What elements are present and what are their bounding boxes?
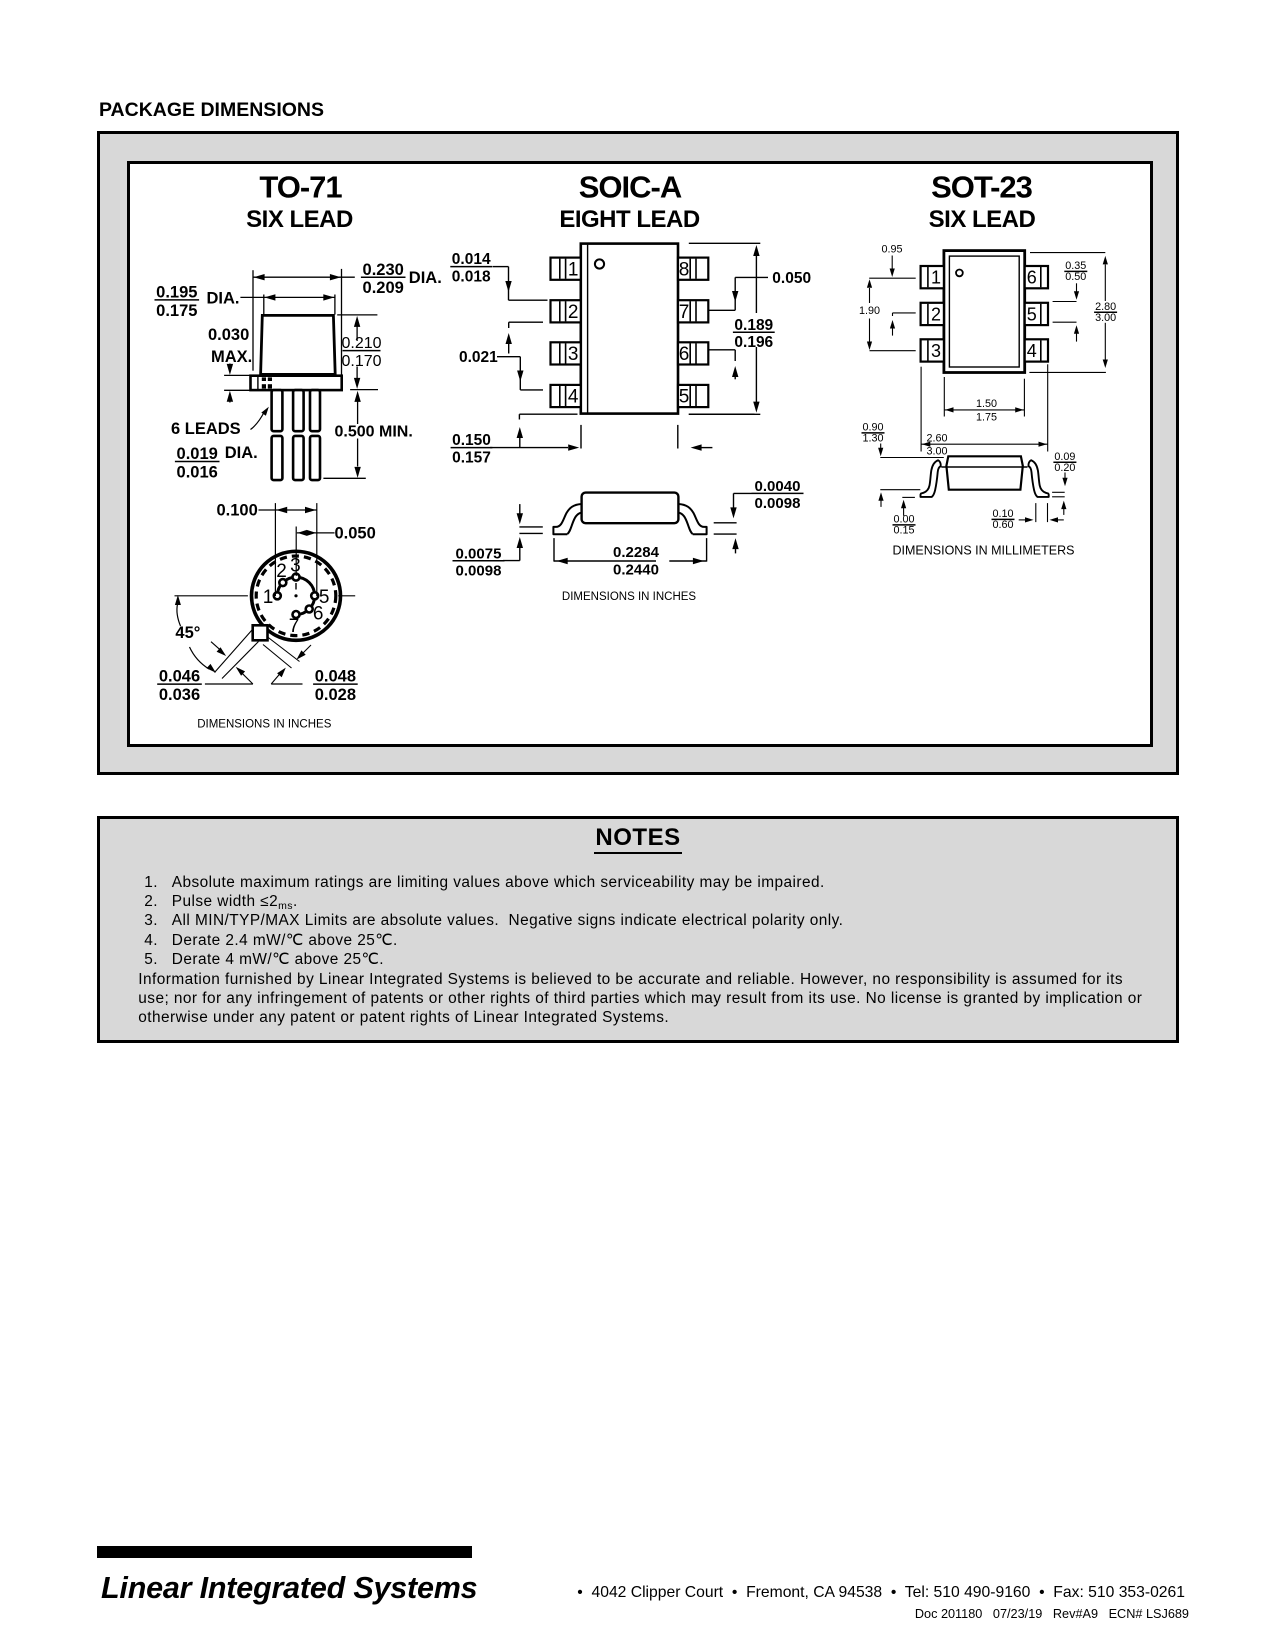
svg-text:0.048: 0.048 — [315, 668, 356, 686]
svg-text:0.036: 0.036 — [159, 686, 200, 704]
pin 7 — [293, 611, 300, 618]
svg-text:0.15: 0.15 — [893, 525, 914, 537]
svg-text:5: 5 — [679, 387, 690, 408]
svg-text:TO-71: TO-71 — [259, 170, 342, 205]
svg-text:0.0075: 0.0075 — [456, 545, 502, 562]
svg-text:DIMENSIONS IN INCHES: DIMENSIONS IN INCHES — [197, 719, 332, 731]
svg-text:8: 8 — [679, 259, 690, 280]
SOT-23 side view body — [880, 456, 1027, 489]
svg-text:SIX LEAD: SIX LEAD — [929, 206, 1036, 233]
svg-text:3.00: 3.00 — [1095, 312, 1116, 324]
svg-text:1: 1 — [263, 587, 274, 608]
svg-text:4: 4 — [1027, 341, 1037, 361]
svg-text:0.157: 0.157 — [452, 450, 491, 467]
dim 0.030 MAX (flange thickness) — [208, 326, 252, 402]
TO-71 leads upper segments — [272, 390, 320, 431]
SOIC side view right lead — [678, 504, 706, 534]
dim 0.2284/0.2440 (overall length) — [554, 538, 707, 578]
TO-71 dimensions note — [197, 719, 332, 731]
pin 5 — [678, 385, 708, 408]
pin2 leader — [890, 313, 916, 336]
svg-text:1.90: 1.90 — [859, 305, 880, 317]
inner white panel — [127, 161, 1153, 747]
svg-text:6: 6 — [1027, 268, 1037, 288]
svg-text:0.014: 0.014 — [452, 251, 491, 268]
svg-text:0.170: 0.170 — [341, 353, 381, 370]
svg-text:0.019: 0.019 — [177, 445, 218, 463]
notes panel — [97, 816, 1179, 1043]
dim 0.189/0.196 (body width) — [689, 243, 775, 414]
pin 3 — [551, 342, 581, 365]
svg-text:DIA.: DIA. — [225, 444, 258, 462]
pin 1 — [274, 592, 281, 599]
pin 2 — [279, 579, 286, 586]
TO-71 title — [246, 170, 353, 234]
svg-text:0.028: 0.028 — [315, 686, 356, 704]
pin 2 — [921, 303, 944, 325]
svg-text:0.050: 0.050 — [772, 270, 811, 287]
svg-text:0.195: 0.195 — [156, 284, 197, 302]
dim 1.50/1.75 (body width) — [944, 377, 1024, 423]
svg-text:1.75: 1.75 — [976, 411, 997, 423]
dim 0.500 MIN (lead length) — [323, 390, 412, 479]
label 6 LEADS with leader — [171, 407, 269, 438]
svg-text:6 LEADS: 6 LEADS — [171, 420, 241, 438]
SOT-23 side view right lead — [1028, 460, 1048, 497]
dim 0.00/0.15 (standoff) — [878, 490, 920, 537]
SOIC body — [581, 244, 678, 414]
svg-text:1: 1 — [568, 259, 579, 280]
svg-text:DIMENSIONS IN MILLIMETERS: DIMENSIONS IN MILLIMETERS — [893, 544, 1075, 558]
pin 6 — [306, 606, 313, 613]
svg-text:0.0098: 0.0098 — [755, 495, 801, 512]
svg-text:0.209: 0.209 — [363, 279, 404, 297]
dim 0.195/0.175 DIA (can top diameter) — [155, 284, 336, 320]
svg-text:DIA.: DIA. — [207, 289, 240, 307]
svg-text:0.2284: 0.2284 — [613, 544, 660, 561]
dim 0.90/1.30 (body thickness ref) — [862, 422, 885, 457]
svg-text:0.230: 0.230 — [363, 261, 404, 279]
svg-text:0.2440: 0.2440 — [613, 562, 659, 579]
dim 0.10/0.60 (foot length) — [992, 503, 1064, 531]
pin 5 — [1025, 303, 1048, 325]
dim 2.60/3.00 (lead span) — [921, 364, 1048, 457]
SOIC side view left lead — [553, 504, 581, 534]
SOT-23 dimensions note — [893, 544, 1075, 558]
svg-text:0.175: 0.175 — [156, 302, 197, 320]
footer logo bar — [97, 1546, 472, 1558]
dim 0.021 leader (pin spacing) — [459, 322, 543, 390]
svg-text:1.30: 1.30 — [862, 433, 883, 445]
SOIC pin1 dot — [595, 259, 604, 268]
pin 6 — [1025, 266, 1048, 288]
svg-text:0.030: 0.030 — [208, 326, 249, 344]
svg-text:0.021: 0.021 — [459, 349, 498, 366]
footer address — [0, 1584, 1185, 1602]
dim 0.0075/0.0098 (standoff) — [453, 504, 543, 579]
svg-text:MAX.: MAX. — [211, 348, 252, 366]
svg-text:EIGHT LEAD: EIGHT LEAD — [559, 206, 700, 233]
pin 6 — [678, 342, 708, 365]
dim 1.90 (pin span) — [859, 279, 916, 351]
pin 5 — [311, 592, 318, 599]
dim 0.150/0.157 (body length) — [451, 414, 755, 466]
svg-text:2.60: 2.60 — [926, 433, 947, 445]
svg-text:3: 3 — [568, 344, 579, 365]
SOT-23 side view left lead — [921, 460, 941, 497]
svg-text:5: 5 — [1027, 305, 1037, 325]
svg-text:0.60: 0.60 — [992, 519, 1013, 531]
dim 0.050 (pin pitch right) — [709, 270, 812, 310]
footer logo text — [101, 1571, 477, 1606]
pin circle arc — [277, 577, 314, 614]
dim 0.014/0.018 (lead thickness) — [450, 251, 547, 300]
outer grey panel — [97, 131, 1179, 775]
pin 4 — [1025, 339, 1048, 361]
TO-71 can body — [261, 315, 336, 374]
dim 0.230/0.209 DIA (can outer diameter) — [253, 261, 442, 381]
svg-text:7: 7 — [289, 616, 300, 637]
svg-text:2: 2 — [276, 561, 287, 582]
svg-text:0.0098: 0.0098 — [456, 562, 502, 579]
svg-text:2: 2 — [568, 302, 579, 323]
dim 0.09/0.20 (lead thickness) — [1052, 451, 1076, 515]
pin 2 — [551, 300, 581, 323]
dim 0.0040/0.0098 (lead thickness) — [714, 478, 804, 553]
svg-text:0.210: 0.210 — [341, 335, 381, 352]
svg-text:0.500 MIN.: 0.500 MIN. — [335, 424, 413, 441]
dim 0.100 (pin circle spacing) — [217, 501, 317, 596]
svg-text:0.50: 0.50 — [1065, 271, 1086, 283]
dim 0.95 (pin offset) — [869, 244, 916, 279]
dim 0.048/0.028 (tab width right) — [271, 645, 358, 704]
svg-text:6: 6 — [679, 344, 690, 365]
SOT-23 body — [944, 251, 1025, 373]
center mark — [294, 583, 297, 597]
TO-71 flange — [251, 376, 342, 390]
svg-text:4: 4 — [568, 387, 579, 408]
dim 0.046/0.036 (tab width left) — [157, 642, 253, 704]
svg-text:3.00: 3.00 — [926, 446, 947, 458]
TO-71 bottom view outline circle — [252, 551, 341, 640]
svg-text:1.50: 1.50 — [976, 398, 997, 410]
SOT-23 title — [929, 170, 1036, 234]
SOIC side view body — [582, 493, 679, 524]
SOT-23 pin1 dot — [956, 270, 963, 277]
svg-text:0.95: 0.95 — [881, 244, 902, 256]
dim 0.050 (pin half spacing) — [296, 524, 376, 576]
svg-text:0.196: 0.196 — [734, 334, 773, 351]
svg-text:3: 3 — [290, 556, 301, 577]
svg-text:45°: 45° — [175, 624, 200, 642]
TO-71 leads lower segments — [272, 436, 320, 480]
svg-text:DIMENSIONS IN INCHES: DIMENSIONS IN INCHES — [562, 591, 697, 603]
dim 2.80/3.00 (body height) — [1029, 253, 1117, 373]
dim 0.35/0.50 (lead width) — [1053, 260, 1088, 342]
pin 7 — [678, 300, 708, 323]
pin 1 — [551, 258, 581, 281]
SOIC-A title — [559, 170, 700, 234]
pin 8 — [678, 258, 708, 281]
dim 0.019/0.016 DIA (lead diameter) — [175, 444, 258, 481]
svg-text:SOT-23: SOT-23 — [931, 170, 1033, 205]
45 degree dimension — [175, 595, 356, 673]
svg-text:0.050: 0.050 — [335, 524, 376, 542]
svg-text:0.189: 0.189 — [734, 317, 773, 334]
SOIC dimensions note — [562, 591, 697, 603]
pin 3 — [293, 574, 300, 581]
svg-text:0.046: 0.046 — [159, 668, 200, 686]
svg-text:6: 6 — [313, 604, 324, 625]
svg-text:3: 3 — [931, 341, 941, 361]
svg-text:0.0040: 0.0040 — [755, 478, 801, 495]
footer doc line — [0, 1607, 1189, 1621]
pin6 leader — [709, 350, 739, 380]
svg-text:0.150: 0.150 — [452, 432, 491, 449]
svg-text:SIX LEAD: SIX LEAD — [246, 206, 353, 233]
pin 1 — [921, 266, 944, 288]
pin numbers — [263, 556, 330, 638]
pin 4 — [551, 385, 581, 408]
svg-text:2: 2 — [931, 305, 941, 325]
svg-text:0.20: 0.20 — [1054, 462, 1075, 474]
svg-text:SOIC-A: SOIC-A — [579, 170, 682, 205]
svg-text:0.016: 0.016 — [177, 464, 218, 482]
svg-text:DIA.: DIA. — [409, 269, 442, 287]
pin 3 — [921, 339, 944, 361]
svg-text:7: 7 — [679, 302, 690, 323]
dim 0.210/0.170 (can height) — [337, 315, 381, 389]
svg-text:0.100: 0.100 — [217, 501, 258, 519]
page heading — [99, 99, 324, 122]
svg-text:0.018: 0.018 — [452, 269, 491, 286]
TO-71 index tab — [215, 625, 300, 678]
svg-text:1: 1 — [931, 268, 941, 288]
TO-71 bottom view dashed circle — [256, 556, 336, 636]
